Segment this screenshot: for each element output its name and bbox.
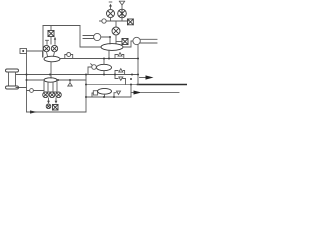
wire riser x138 — [137, 45, 139, 85]
tank TK1 top ellipse — [44, 78, 57, 82]
instrument small circle inline — [30, 89, 34, 93]
agitator arrow right — [54, 37, 56, 45]
wire VB1 to cluster — [27, 51, 43, 57]
wire top cluster header — [100, 20, 129, 22]
instrument C4 — [46, 104, 51, 109]
wire long line L58 — [60, 58, 138, 60]
wire B1 to E2 — [101, 37, 110, 44]
wire E3 bottom tick — [103, 71, 105, 75]
wire left riser x25 — [26, 54, 28, 113]
node A small circle inlet — [102, 19, 106, 23]
wire vessel drain to tank — [27, 90, 45, 92]
wire pump drops to vessel E1 — [47, 52, 55, 56]
wire rect1 top edge — [43, 25, 80, 27]
vessel E2 — [101, 44, 123, 51]
vessel VS1 top flange — [6, 69, 19, 72]
wire long line L80 right — [57, 79, 86, 81]
pump P6 — [43, 92, 49, 98]
pump P7 — [49, 92, 55, 98]
wire XB3 stub — [116, 41, 122, 43]
wire long line L74 — [16, 74, 138, 76]
pump P1 — [43, 45, 49, 51]
valve stub T1 — [68, 80, 72, 86]
valve XB1 crossed box — [48, 31, 54, 37]
wire long line L84 dark right part — [138, 84, 188, 86]
wire E3 top tick — [103, 59, 105, 65]
wire long line L84 left part — [86, 84, 138, 86]
instrument stub S1 — [65, 53, 73, 59]
agitator arrow left — [46, 40, 49, 44]
wire riser V1 — [85, 75, 87, 113]
vessel E4 — [98, 88, 112, 94]
valve stub S2 — [115, 53, 124, 59]
valve XB4 crossed box — [53, 105, 59, 111]
wire E4 tick — [104, 94, 106, 97]
valve XB3 crossed box — [122, 39, 128, 45]
arrow down D1 — [47, 98, 50, 104]
vessel VS1 bottom flange — [6, 86, 19, 89]
vessel VS1 body — [9, 72, 16, 86]
valve stub T4b — [114, 91, 121, 97]
arrow A2 product out — [131, 91, 179, 95]
valve stub T3 — [115, 69, 125, 75]
wire pump drops — [111, 18, 123, 22]
arrow A1 product out — [140, 75, 154, 79]
wire long line L80 left — [16, 80, 44, 88]
valve stub T4 — [115, 75, 126, 85]
agitator arrow above P4 — [109, 2, 112, 10]
wire E1 downcomer to tank — [50, 62, 52, 78]
wire bottom line L112 — [27, 111, 87, 113]
vessel E1 — [44, 56, 60, 62]
wire rect1 left side — [42, 26, 44, 58]
wire F1 to L74 — [88, 67, 92, 75]
valve SQ1 box — [92, 91, 98, 97]
pump P8 — [56, 92, 62, 98]
valve VB1 box with dot — [20, 49, 27, 54]
pump P2 — [51, 45, 57, 51]
blower B1 — [94, 33, 101, 40]
instrument F1 circle with flag — [91, 64, 97, 70]
node junction dots — [26, 36, 140, 98]
valve V2 circle — [112, 27, 120, 35]
wire V2 down to E2 — [115, 35, 117, 44]
wire line L97 — [86, 96, 131, 98]
heater double lines left — [83, 36, 94, 39]
wire rect1 right side down to mixer feed — [80, 26, 101, 48]
wire riser x131 — [130, 85, 132, 98]
pump P4 — [107, 10, 115, 18]
vessel E3 — [97, 64, 112, 70]
tank TK1 body — [44, 82, 57, 93]
wire XB1 drop — [50, 26, 52, 45]
wire E2 to B2 — [123, 41, 133, 47]
arrow down D2 — [55, 98, 58, 104]
blower B2 — [133, 37, 140, 44]
node dot right branch — [130, 78, 132, 80]
pump P5 — [118, 9, 127, 18]
arrow A3 flow marker — [30, 110, 37, 113]
wire tee down to V2 — [115, 21, 117, 27]
vent funnel above P5 — [119, 1, 124, 9]
heater double lines right — [141, 39, 158, 43]
valve XB2 crossed box — [128, 19, 134, 25]
wire E2 bottom drop — [108, 50, 110, 58]
